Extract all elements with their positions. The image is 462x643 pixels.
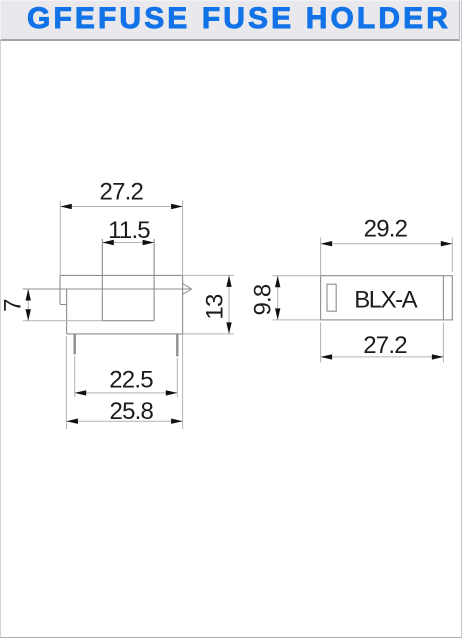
side body outline xyxy=(321,276,453,320)
dim line 9.8 xyxy=(277,276,279,320)
fuse window xyxy=(327,284,336,311)
arrows 9.8 xyxy=(275,276,280,288)
svg-text:27.2: 27.2 xyxy=(100,179,144,206)
svg-text:9.8: 9.8 xyxy=(249,284,276,315)
fuse cavity bottom edge xyxy=(102,320,154,322)
ext 13 top xyxy=(183,274,234,276)
arrows 22.5 xyxy=(75,390,87,395)
ext 22.5 left xyxy=(74,356,76,397)
arrows 25.8 xyxy=(66,419,78,424)
dim line 29.2 xyxy=(321,243,453,245)
ext 7 top/bottom xyxy=(23,320,103,322)
dimension lines, left view xyxy=(28,207,229,422)
flange top edge xyxy=(60,274,183,276)
flange left edge xyxy=(59,275,61,304)
body left edge xyxy=(66,289,68,334)
extension lines, right view xyxy=(273,238,453,363)
dim line 11.5 xyxy=(102,242,154,244)
fuse cavity right edge xyxy=(153,239,155,321)
svg-text:22.5: 22.5 xyxy=(109,367,153,394)
arrows 7 xyxy=(26,289,31,301)
ext 9.8 top xyxy=(273,275,321,277)
arrows 27.2 side xyxy=(321,354,333,359)
ext 29.2 left xyxy=(320,238,322,276)
ext 22.5 right xyxy=(176,358,178,397)
ext 27.2 left (below) xyxy=(320,323,322,363)
ext 9.8 bottom xyxy=(273,319,321,321)
svg-text:25.8: 25.8 xyxy=(110,398,154,425)
svg-text:BLX-A: BLX-A xyxy=(354,287,417,314)
svg-text:27.2: 27.2 xyxy=(363,332,407,359)
svg-text:29.2: 29.2 xyxy=(364,215,408,242)
fuse cavity left edge xyxy=(101,239,103,321)
arrows 11.5 xyxy=(102,240,114,245)
ext 27.2 right / 25.8 right xyxy=(182,201,184,429)
ext 13 bottom xyxy=(183,333,234,335)
dim line 25.8 xyxy=(66,420,182,422)
centerline through fuse xyxy=(23,288,191,290)
ext 27.2 right (below) xyxy=(442,323,444,363)
open arrowhead on centerline xyxy=(183,284,192,295)
svg-text:7: 7 xyxy=(0,299,26,312)
left pin xyxy=(74,334,76,355)
latch split line xyxy=(442,276,444,320)
dim line 27.2 xyxy=(60,206,182,208)
dim line 27.2 (side) xyxy=(321,356,444,358)
step under flange xyxy=(60,304,67,306)
ext 29.2 right xyxy=(451,238,453,273)
ext 25.8 left xyxy=(65,336,67,429)
body right edge xyxy=(182,275,184,334)
arrows 27.2 xyxy=(60,204,72,209)
dim line 22.5 xyxy=(75,392,178,394)
dimension lines, right view xyxy=(278,244,453,357)
arrows 29.2 xyxy=(321,241,333,246)
dim line 7 xyxy=(27,289,29,321)
svg-text:13: 13 xyxy=(201,294,228,320)
ext 27.2 left xyxy=(59,201,61,276)
dim line 13 xyxy=(228,275,230,334)
right pin xyxy=(176,334,178,357)
svg-text:11.5: 11.5 xyxy=(108,217,150,244)
arrows 13 xyxy=(226,275,231,287)
header bar xyxy=(0,0,460,41)
extension lines, left view xyxy=(23,201,234,429)
body bottom edge xyxy=(67,333,183,335)
